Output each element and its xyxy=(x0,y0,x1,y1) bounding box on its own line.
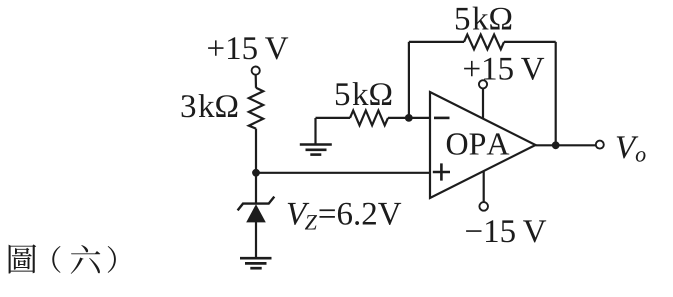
wire op-amp output to Vo terminal xyxy=(536,144,596,146)
wire R2 to op-amp inverting input xyxy=(388,117,429,119)
figure title char close paren xyxy=(108,246,116,273)
ground below zener bar3 xyxy=(250,267,261,270)
zener diode D1 anode triangle xyxy=(246,204,266,222)
terminal -15V op-amp supply (open circle) xyxy=(479,202,488,211)
figure title char liu (六) xyxy=(71,245,101,274)
label VZ value =6.2V xyxy=(320,203,402,225)
label +15V left supply xyxy=(208,37,288,59)
label -15V negative supply xyxy=(466,220,546,242)
op-amp non-inverting input plus marker xyxy=(433,163,450,180)
feedback wire top left segment xyxy=(409,41,464,43)
wire R1 to node A xyxy=(255,129,257,203)
op-amp inverting input minus marker xyxy=(434,117,450,120)
resistor R2 5k ohm horizontal zigzag xyxy=(350,111,388,126)
label 3k ohm xyxy=(182,94,238,117)
feedback wire top right segment xyxy=(504,41,556,43)
label 5k ohm input resistor xyxy=(336,82,391,105)
terminal +15V op-amp supply (open circle) xyxy=(479,80,487,88)
resistor R1 3k ohm vertical zigzag xyxy=(249,88,263,129)
wire node A to op-amp non-inverting input xyxy=(256,172,429,174)
terminal +15V left (open circle) xyxy=(252,67,260,75)
node B junction dot xyxy=(405,114,413,122)
ground inverting side bar3 xyxy=(310,153,321,156)
label Vo subscript o xyxy=(636,151,646,162)
ground inverting side bar1 xyxy=(300,143,332,146)
op-amp U1 triangle xyxy=(430,92,536,198)
label 5k ohm feedback resistor xyxy=(456,7,511,30)
label VZ subscript Z xyxy=(305,215,317,229)
node C output junction dot xyxy=(552,141,560,149)
zener diode D1 cathode bar with bent ends xyxy=(238,197,275,211)
label VZ voltage V (italic) xyxy=(288,203,310,225)
feedback wire left vertical xyxy=(408,42,410,118)
node A junction dot xyxy=(252,169,260,177)
ground below zener bar1 xyxy=(240,257,272,260)
wire ground to R2 xyxy=(316,117,351,119)
ground stub inverting side xyxy=(314,118,316,144)
resistor R3 5k ohm feedback zigzag xyxy=(464,35,504,50)
label +15V positive supply xyxy=(464,58,544,80)
feedback wire right vertical to output node xyxy=(555,42,557,145)
wire -15V supply pin to op-amp xyxy=(483,171,485,202)
figure title char open paren xyxy=(52,246,60,273)
wire zener to ground xyxy=(255,222,257,258)
figure title char tu (圖) xyxy=(9,244,37,273)
wire +15V supply pin to op-amp xyxy=(482,88,484,119)
ground below zener bar2 xyxy=(245,262,267,265)
terminal Vo (open circle) xyxy=(596,141,604,149)
ground inverting side bar2 xyxy=(306,149,327,152)
op-amp label OPA xyxy=(447,133,510,155)
label Vo output voltage xyxy=(617,136,639,158)
wire +15V terminal to R1 xyxy=(255,75,258,88)
